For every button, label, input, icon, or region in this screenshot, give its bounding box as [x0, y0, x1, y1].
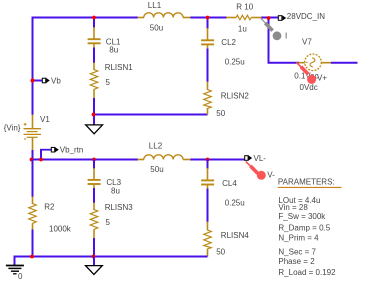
wire top rail between LL1 and R10	[190, 17, 227, 19]
svg-text:0.25u: 0.25u	[225, 58, 245, 67]
svg-text:N_Prim = 4: N_Prim = 4	[278, 233, 319, 242]
wire CL2 to RLISN2	[207, 49, 209, 83]
svg-text:LL1: LL1	[148, 1, 162, 10]
wire vertical from R10 junction down	[268, 18, 270, 64]
svg-text:V-: V-	[267, 170, 275, 179]
svg-text:RLISN2: RLISN2	[221, 91, 250, 100]
svg-text:V1: V1	[40, 115, 50, 124]
wire ground stem top	[93, 115, 95, 126]
svg-text:0: 0	[18, 272, 23, 281]
svg-text:5: 5	[106, 78, 111, 87]
port VL- flag	[245, 154, 267, 163]
svg-text:V+: V+	[317, 74, 327, 83]
wire top return rail	[93, 114, 208, 116]
svg-text:LL2: LL2	[149, 142, 163, 151]
svg-text:RLISN4: RLISN4	[221, 231, 250, 240]
wire CL1 to RLISN1	[93, 48, 95, 64]
svg-text:0.25u: 0.25u	[225, 199, 245, 208]
svg-text:RLISN1: RLISN1	[105, 63, 134, 72]
node R10 output junction	[267, 16, 271, 20]
wire CL3 to RLISN3	[93, 188, 95, 203]
wire earth stem	[14, 256, 16, 266]
parameters block title	[278, 177, 342, 187]
svg-text:PARAMETERS:: PARAMETERS:	[278, 177, 335, 186]
svg-text:R2: R2	[44, 202, 55, 211]
node ground rail junction top	[92, 113, 96, 117]
port Vb flag	[33, 76, 62, 85]
node CL4 top junction	[206, 158, 210, 162]
node CL2 top junction	[206, 16, 210, 20]
ground 0 (earth)	[6, 266, 24, 282]
svg-text:50u: 50u	[150, 24, 163, 33]
resistor R2	[29, 160, 72, 234]
svg-text:RLISN3: RLISN3	[105, 203, 134, 212]
svg-text:R_Damp = 0.5: R_Damp = 0.5	[278, 223, 330, 232]
svg-text:50u: 50u	[150, 165, 163, 174]
capacitor CL1	[88, 18, 121, 55]
svg-text:1000k: 1000k	[49, 224, 72, 233]
svg-text:28VDC_IN: 28VDC_IN	[287, 12, 325, 21]
svg-text:Phase = 2: Phase = 2	[278, 257, 315, 266]
svg-text:R_Load = 0.192: R_Load = 0.192	[278, 268, 336, 277]
wire CL4 to RLISN4	[207, 189, 209, 223]
wire R2 to bottom rail	[32, 230, 34, 257]
svg-text:Vb: Vb	[51, 76, 61, 85]
wire RLISN1 to ground rail	[93, 98, 95, 115]
resistor RLISN1	[90, 63, 133, 99]
resistor R10	[226, 3, 262, 34]
parameters values	[278, 196, 336, 277]
svg-text:VL-: VL-	[254, 154, 267, 163]
wire left vertical rail	[32, 17, 34, 116]
wire V7 right	[331, 62, 358, 64]
node Vb_rtn junction	[39, 158, 43, 162]
svg-text:50: 50	[216, 247, 225, 256]
node R2 bottom junction	[30, 255, 34, 259]
svg-text:8u: 8u	[111, 186, 120, 195]
wire R10 to port	[261, 17, 279, 19]
capacitor CL2	[201, 18, 245, 67]
wire bottom rail	[15, 256, 208, 258]
port 28VDC_IN	[278, 12, 325, 21]
svg-text:V7: V7	[302, 37, 312, 46]
current probe (gray) at R10 output	[261, 19, 287, 41]
node CL1 top junction	[92, 16, 96, 20]
svg-text:1u: 1u	[238, 25, 247, 34]
voltage probe V- (red) at VL-	[246, 162, 275, 180]
ground (bottom)	[86, 266, 103, 275]
svg-text:50: 50	[216, 109, 225, 118]
resistor RLISN3	[90, 203, 133, 239]
inductor LL2	[138, 142, 191, 175]
svg-text:Vb_rtn: Vb_rtn	[60, 146, 84, 155]
inductor LL1	[138, 1, 191, 33]
svg-text:I: I	[285, 31, 287, 40]
resistor RLISN4	[204, 222, 250, 257]
node CL3 top junction	[92, 158, 96, 162]
node V1 bottom junction	[30, 158, 34, 162]
svg-text:CL4: CL4	[222, 179, 237, 188]
resistor RLISN2	[204, 82, 250, 118]
node Vb junction	[31, 79, 35, 83]
AC source V7	[294, 37, 331, 92]
wire top rail left	[32, 17, 139, 19]
svg-text:F_Sw = 300k: F_Sw = 300k	[278, 212, 326, 221]
svg-text:N_Sec = 7: N_Sec = 7	[278, 247, 316, 256]
ground (top)	[86, 125, 103, 134]
wire elbow to V7 left	[268, 62, 300, 64]
capacitor CL4	[201, 160, 245, 208]
wire RLISN3 to bottom rail	[93, 238, 95, 257]
wire mid rail right	[190, 159, 245, 161]
port Vb_rtn flag	[40, 146, 83, 160]
voltage source V1	[4, 115, 51, 151]
voltage probe V+ (red) at V7	[296, 62, 327, 84]
wire ground stem bottom	[93, 257, 95, 266]
svg-text:{Vin}: {Vin}	[4, 123, 21, 132]
svg-text:8u: 8u	[109, 46, 118, 55]
svg-text:0Vdc: 0Vdc	[300, 83, 318, 92]
svg-text:CL2: CL2	[221, 38, 236, 47]
wire V1 to mid rail	[32, 150, 34, 160]
capacitor CL3	[88, 160, 122, 196]
wire mid rail left	[31, 159, 139, 161]
node RLISN3 bottom junction	[92, 255, 96, 259]
svg-text:R 10: R 10	[236, 3, 253, 12]
svg-text:5: 5	[106, 218, 111, 227]
